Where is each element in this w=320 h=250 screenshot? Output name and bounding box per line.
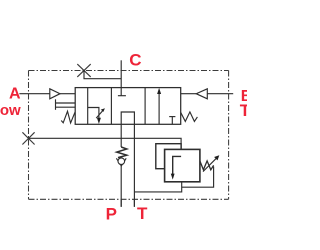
box4 blocked port (T symbol) — [169, 117, 175, 125]
port T stub — [133, 199, 135, 207]
svg-text:C: C — [129, 51, 141, 70]
check valve spring — [117, 147, 127, 158]
node C line — [120, 60, 122, 87]
svg-text:T: T — [137, 204, 148, 223]
box4 flow arrow up — [157, 88, 161, 124]
wire pilot supply to relief valve — [29, 138, 182, 149]
svg-text:P: P — [106, 204, 117, 223]
node T line — [133, 124, 135, 207]
plugged port X2 on left border — [22, 132, 34, 144]
wire port B — [207, 93, 233, 95]
relief spring anchor wire — [182, 167, 214, 188]
valve body V1 — [75, 88, 181, 125]
throttle X1 on top border — [77, 64, 90, 77]
svg-text:Flow: Flow — [0, 102, 21, 119]
node P line upper — [120, 124, 122, 147]
relief valve main square U2 — [165, 149, 200, 181]
relief flow path arrow — [171, 156, 181, 179]
spring right — [181, 112, 198, 122]
relief pilot stage rect — [156, 144, 181, 169]
pilot actuator bracket — [56, 99, 76, 110]
relief spring — [200, 161, 214, 170]
relief adjust arrow — [203, 155, 219, 171]
wire valve to check arrow B — [181, 93, 197, 95]
box3 U bypass P-T — [121, 112, 134, 124]
wire A to valve — [60, 93, 75, 95]
spring left — [61, 111, 75, 123]
enclosure dash-dot border — [29, 71, 229, 200]
svg-text:T: T — [240, 101, 247, 120]
relief outlet wire to T — [134, 182, 181, 192]
box2 throttle path arrow (down) — [88, 108, 105, 124]
node P line lower — [120, 166, 122, 207]
valve position divider 1 — [87, 88, 89, 125]
valve position divider 2 — [110, 88, 112, 125]
check arrow A (triangle) — [50, 89, 60, 99]
port P stub — [120, 199, 122, 207]
check arrow B (triangle) — [196, 89, 207, 99]
wire port A — [19, 93, 49, 95]
wire from X1 to node C line — [84, 71, 121, 79]
svg-text:A: A — [9, 85, 21, 102]
check valve seat and ball — [116, 158, 126, 166]
box3 blocked port C (T symbol) — [118, 88, 126, 96]
valve position divider 3 — [144, 88, 146, 125]
